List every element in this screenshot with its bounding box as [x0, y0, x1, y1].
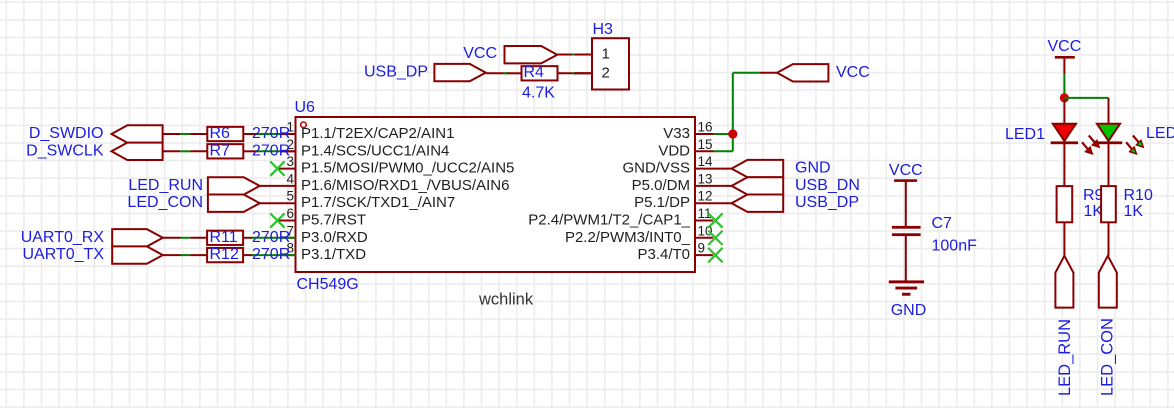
svg-text:2: 2: [602, 64, 610, 81]
wire R6 to pin: [280, 133, 296, 135]
wire VCC to H3 pin1: [557, 54, 592, 56]
net flag LED_RUN (vertical): [1055, 256, 1074, 396]
wire R7 left: [163, 150, 181, 152]
svg-text:P3.1/TXD: P3.1/TXD: [301, 246, 366, 263]
net flag LED_RUN: [128, 177, 259, 195]
svg-text:LED1: LED1: [1005, 126, 1045, 143]
wire green pin16 to junction: [714, 133, 733, 135]
wire green segment USB_DP-R4: [503, 72, 509, 74]
wire R7 to box: [190, 150, 207, 152]
svg-text:U6: U6: [295, 99, 316, 116]
svg-text:VCC: VCC: [836, 64, 870, 81]
wire green pin15 horizontal: [714, 150, 733, 152]
wire junction to LED1: [1063, 100, 1065, 124]
svg-text:P2.4/PWM1/T2_/CAP1_: P2.4/PWM1/T2_/CAP1_: [528, 212, 690, 229]
svg-text:P3.0/RXD: P3.0/RXD: [301, 229, 368, 246]
wire R12 to box: [190, 254, 207, 256]
svg-text:LED2: LED2: [1146, 125, 1174, 142]
svg-text:V33: V33: [663, 125, 690, 142]
svg-text:LED_RUN: LED_RUN: [128, 177, 203, 194]
wire green segment R12 right: [252, 254, 296, 256]
wire VCC to C7: [905, 181, 907, 227]
U6 pin 16 (V33): [663, 120, 714, 143]
net flag VCC (right): [777, 64, 870, 82]
U6 pin 8 (P3.1/TXD): [280, 241, 366, 264]
svg-text:1: 1: [602, 46, 610, 63]
resistor R9: [1057, 186, 1104, 222]
svg-text:P1.7/SCK/TXD1_/AIN7: P1.7/SCK/TXD1_/AIN7: [301, 194, 455, 211]
wire green segment R12 left: [181, 254, 191, 256]
wire R11 to box: [190, 237, 207, 239]
wire green segment LED2-R10: [1108, 235, 1110, 241]
U6 value CH549G: [297, 276, 359, 293]
svg-text:4: 4: [286, 171, 294, 186]
svg-text:D_SWCLK: D_SWCLK: [26, 142, 104, 159]
net flag D_SWCLK: [26, 142, 162, 160]
svg-text:R4: R4: [524, 64, 545, 81]
wire R9 to flag: [1063, 222, 1065, 256]
U6 pin 11 (P2.4/PWM1/T2_/CAP1_): [528, 206, 713, 229]
VCC symbol (LEDs): [1048, 38, 1082, 59]
svg-text:R12: R12: [210, 246, 239, 263]
svg-text:270R: 270R: [252, 229, 290, 246]
U6 pin 1 indicator circle: [301, 122, 307, 128]
resistor R7: [207, 142, 243, 159]
svg-text:LED_CON: LED_CON: [127, 194, 203, 211]
wire VCC down red: [1063, 57, 1065, 74]
wire USB_DP to R4: [486, 72, 509, 74]
wire green segment R7 left: [180, 150, 190, 152]
wire green junction up: [732, 73, 734, 134]
resistor R10: [1101, 186, 1153, 222]
wire to R4 box: [508, 72, 522, 74]
ground (C7): [889, 280, 926, 319]
no-connect X on pin 11: [708, 213, 722, 227]
R11 value 270R: [252, 229, 290, 246]
svg-text:VCC: VCC: [463, 45, 497, 62]
svg-text:15: 15: [698, 137, 713, 152]
wire R7 right: [243, 150, 259, 152]
svg-text:270R: 270R: [252, 125, 290, 142]
U6 pin 9 (P3.4/T0): [637, 241, 712, 264]
R7 value 270R: [252, 142, 290, 159]
svg-text:P5.0/DM: P5.0/DM: [632, 177, 690, 194]
wire R12 right: [243, 254, 253, 256]
U6 pin 5 (P1.7/SCK/TXD1_/AIN7): [260, 189, 456, 212]
svg-text:R6: R6: [210, 125, 231, 142]
net flag LED_CON: [127, 194, 259, 212]
H3 reference designator: [593, 21, 614, 38]
C7 reference designator: [932, 215, 953, 232]
wire LED1 to R9: [1063, 144, 1065, 186]
U6 pin 12 (P5.1/DP): [634, 189, 731, 212]
wire green segment R11 right: [252, 237, 296, 239]
net flag VCC (top): [463, 45, 557, 63]
wire green to VCC flag: [733, 72, 760, 74]
H3 pin 1: [574, 46, 610, 63]
no-connect X on pin 9: [708, 248, 722, 262]
connector H3 body: [592, 38, 629, 89]
svg-text:16: 16: [698, 120, 713, 135]
svg-text:VDD: VDD: [658, 142, 690, 159]
VCC symbol (C7): [889, 162, 923, 182]
svg-text:wchlink: wchlink: [478, 291, 534, 309]
wire C7 to GND: [905, 236, 907, 281]
svg-text:9: 9: [698, 241, 706, 256]
wire R6 to box: [190, 133, 207, 135]
R12 value 270R: [252, 246, 290, 263]
text wchlink: [478, 291, 534, 309]
svg-text:R7: R7: [210, 142, 231, 159]
wire branch to LED2: [1108, 98, 1110, 124]
wire green segment R4-H3: [572, 72, 579, 74]
net flag USB_DP (pin12): [732, 194, 859, 212]
H3 pin 2: [574, 64, 610, 81]
no-connect X on pin 3: [270, 161, 284, 175]
net flag GND (pin14): [732, 160, 831, 178]
svg-text:C7: C7: [932, 215, 953, 232]
R6 value 270R: [252, 125, 290, 142]
wire green segment R7 right: [258, 150, 281, 152]
svg-text:270R: 270R: [252, 246, 290, 263]
wire green segment R6 left: [180, 133, 190, 135]
svg-text:R11: R11: [210, 229, 238, 246]
svg-text:13: 13: [698, 171, 713, 186]
wire green segment R11 left: [181, 237, 191, 239]
svg-text:VCC: VCC: [1048, 38, 1082, 55]
svg-text:P1.5/MOSI/PWM0_/UCC2/AIN5: P1.5/MOSI/PWM0_/UCC2/AIN5: [301, 160, 514, 177]
svg-text:CH549G: CH549G: [297, 276, 359, 293]
svg-text:UART0_RX: UART0_RX: [21, 229, 105, 246]
net flag D_SWDIO: [29, 125, 163, 143]
U6 pin 4 (P1.6/MISO/RXD1_/VBUS/AIN6): [260, 171, 510, 194]
wire green VCC to junction: [1063, 73, 1065, 95]
svg-text:GND/VSS: GND/VSS: [622, 160, 690, 177]
svg-text:LED_CON: LED_CON: [1098, 318, 1116, 396]
net flag LED_CON (vertical): [1098, 256, 1117, 396]
U6 pin 6 (P5.7/RST): [279, 206, 367, 229]
LED LED1: [1005, 124, 1099, 154]
svg-text:LED_RUN: LED_RUN: [1056, 319, 1074, 396]
wire green segment R6 right: [258, 133, 281, 135]
wire R4 to H3 pin2: [558, 72, 593, 74]
svg-text:12: 12: [698, 189, 713, 204]
resistor R11: [207, 229, 243, 246]
wire R6 left: [163, 133, 181, 135]
resistor R12: [207, 246, 243, 263]
U6 pin 2 (P1.4/SCS/UCC1/AIN4): [280, 137, 449, 160]
svg-text:USB_DP: USB_DP: [364, 64, 428, 81]
net flag UART0_RX: [21, 229, 163, 247]
svg-text:USB_DN: USB_DN: [795, 177, 860, 194]
wire LED2 to R10: [1108, 144, 1110, 186]
capacitor C7: [892, 226, 921, 236]
svg-text:UART0_TX: UART0_TX: [22, 246, 104, 263]
no-connect X on pin 6: [270, 213, 284, 227]
svg-text:GND: GND: [891, 302, 927, 319]
svg-text:P5.7/RST: P5.7/RST: [301, 212, 366, 229]
svg-text:P2.2/PWM3/INT0_: P2.2/PWM3/INT0_: [565, 229, 691, 246]
svg-text:P1.4/SCS/UCC1/AIN4: P1.4/SCS/UCC1/AIN4: [301, 142, 449, 159]
svg-text:USB_DP: USB_DP: [795, 194, 859, 211]
C7 value 100nF: [932, 238, 978, 255]
svg-text:P3.4/T0: P3.4/T0: [637, 246, 690, 263]
svg-text:1K: 1K: [1124, 203, 1144, 220]
svg-text:GND: GND: [795, 160, 831, 177]
net flag UART0_TX: [22, 246, 162, 264]
svg-text:P1.1/T2EX/CAP2/AIN1: P1.1/T2EX/CAP2/AIN1: [301, 125, 454, 142]
net flag USB_DN (pin13): [732, 177, 860, 195]
LED LED2: [1095, 124, 1174, 154]
wire R12 left: [163, 254, 181, 256]
wire green junction to LED2 branch: [1064, 97, 1108, 99]
R4 value 4.7K: [522, 85, 555, 102]
U6 reference designator: [295, 99, 316, 116]
resistor R4: [522, 64, 558, 81]
resistor R6: [207, 125, 243, 142]
no-connect X on pin 10: [708, 231, 722, 245]
svg-text:6: 6: [286, 206, 294, 221]
wire R10 to flag: [1108, 222, 1110, 256]
U6 pin 14 (GND/VSS): [622, 154, 731, 177]
svg-text:R10: R10: [1124, 187, 1153, 204]
wire R7 to pin: [280, 150, 296, 152]
IC U6 body: [296, 117, 696, 272]
U6 pin 7 (P3.0/RXD): [280, 223, 368, 246]
U6 pin 15 (VDD): [658, 137, 714, 160]
svg-text:100nF: 100nF: [932, 238, 978, 255]
junction dot (LED): [1060, 93, 1069, 102]
junction dot: [728, 129, 737, 138]
wire green segment VCC-H3: [572, 54, 579, 56]
svg-text:14: 14: [698, 154, 714, 169]
wire green pin15 vertical: [732, 134, 734, 151]
svg-text:5: 5: [286, 189, 294, 204]
svg-text:P1.6/MISO/RXD1_/VBUS/AIN6: P1.6/MISO/RXD1_/VBUS/AIN6: [301, 177, 509, 194]
U6 pin 10 (P2.2/PWM3/INT0_): [565, 223, 713, 246]
svg-text:D_SWDIO: D_SWDIO: [29, 125, 104, 142]
svg-text:VCC: VCC: [889, 162, 923, 179]
wire VCC flag pin: [759, 72, 777, 74]
wire R11 right: [243, 237, 253, 239]
U6 pin 3 (P1.5/MOSI/PWM0_/UCC2/AIN5): [279, 154, 515, 177]
U6 pin 1 (P1.1/T2EX/CAP2/AIN1): [280, 120, 454, 143]
U6 pin 13 (P5.0/DM): [632, 171, 732, 194]
svg-text:270R: 270R: [252, 142, 290, 159]
wire R11 left: [163, 237, 181, 239]
wire R6 right: [243, 133, 259, 135]
net flag USB_DP (top): [364, 64, 486, 82]
svg-text:4.7K: 4.7K: [522, 85, 555, 102]
svg-text:H3: H3: [593, 21, 614, 38]
svg-text:P5.1/DP: P5.1/DP: [634, 194, 690, 211]
